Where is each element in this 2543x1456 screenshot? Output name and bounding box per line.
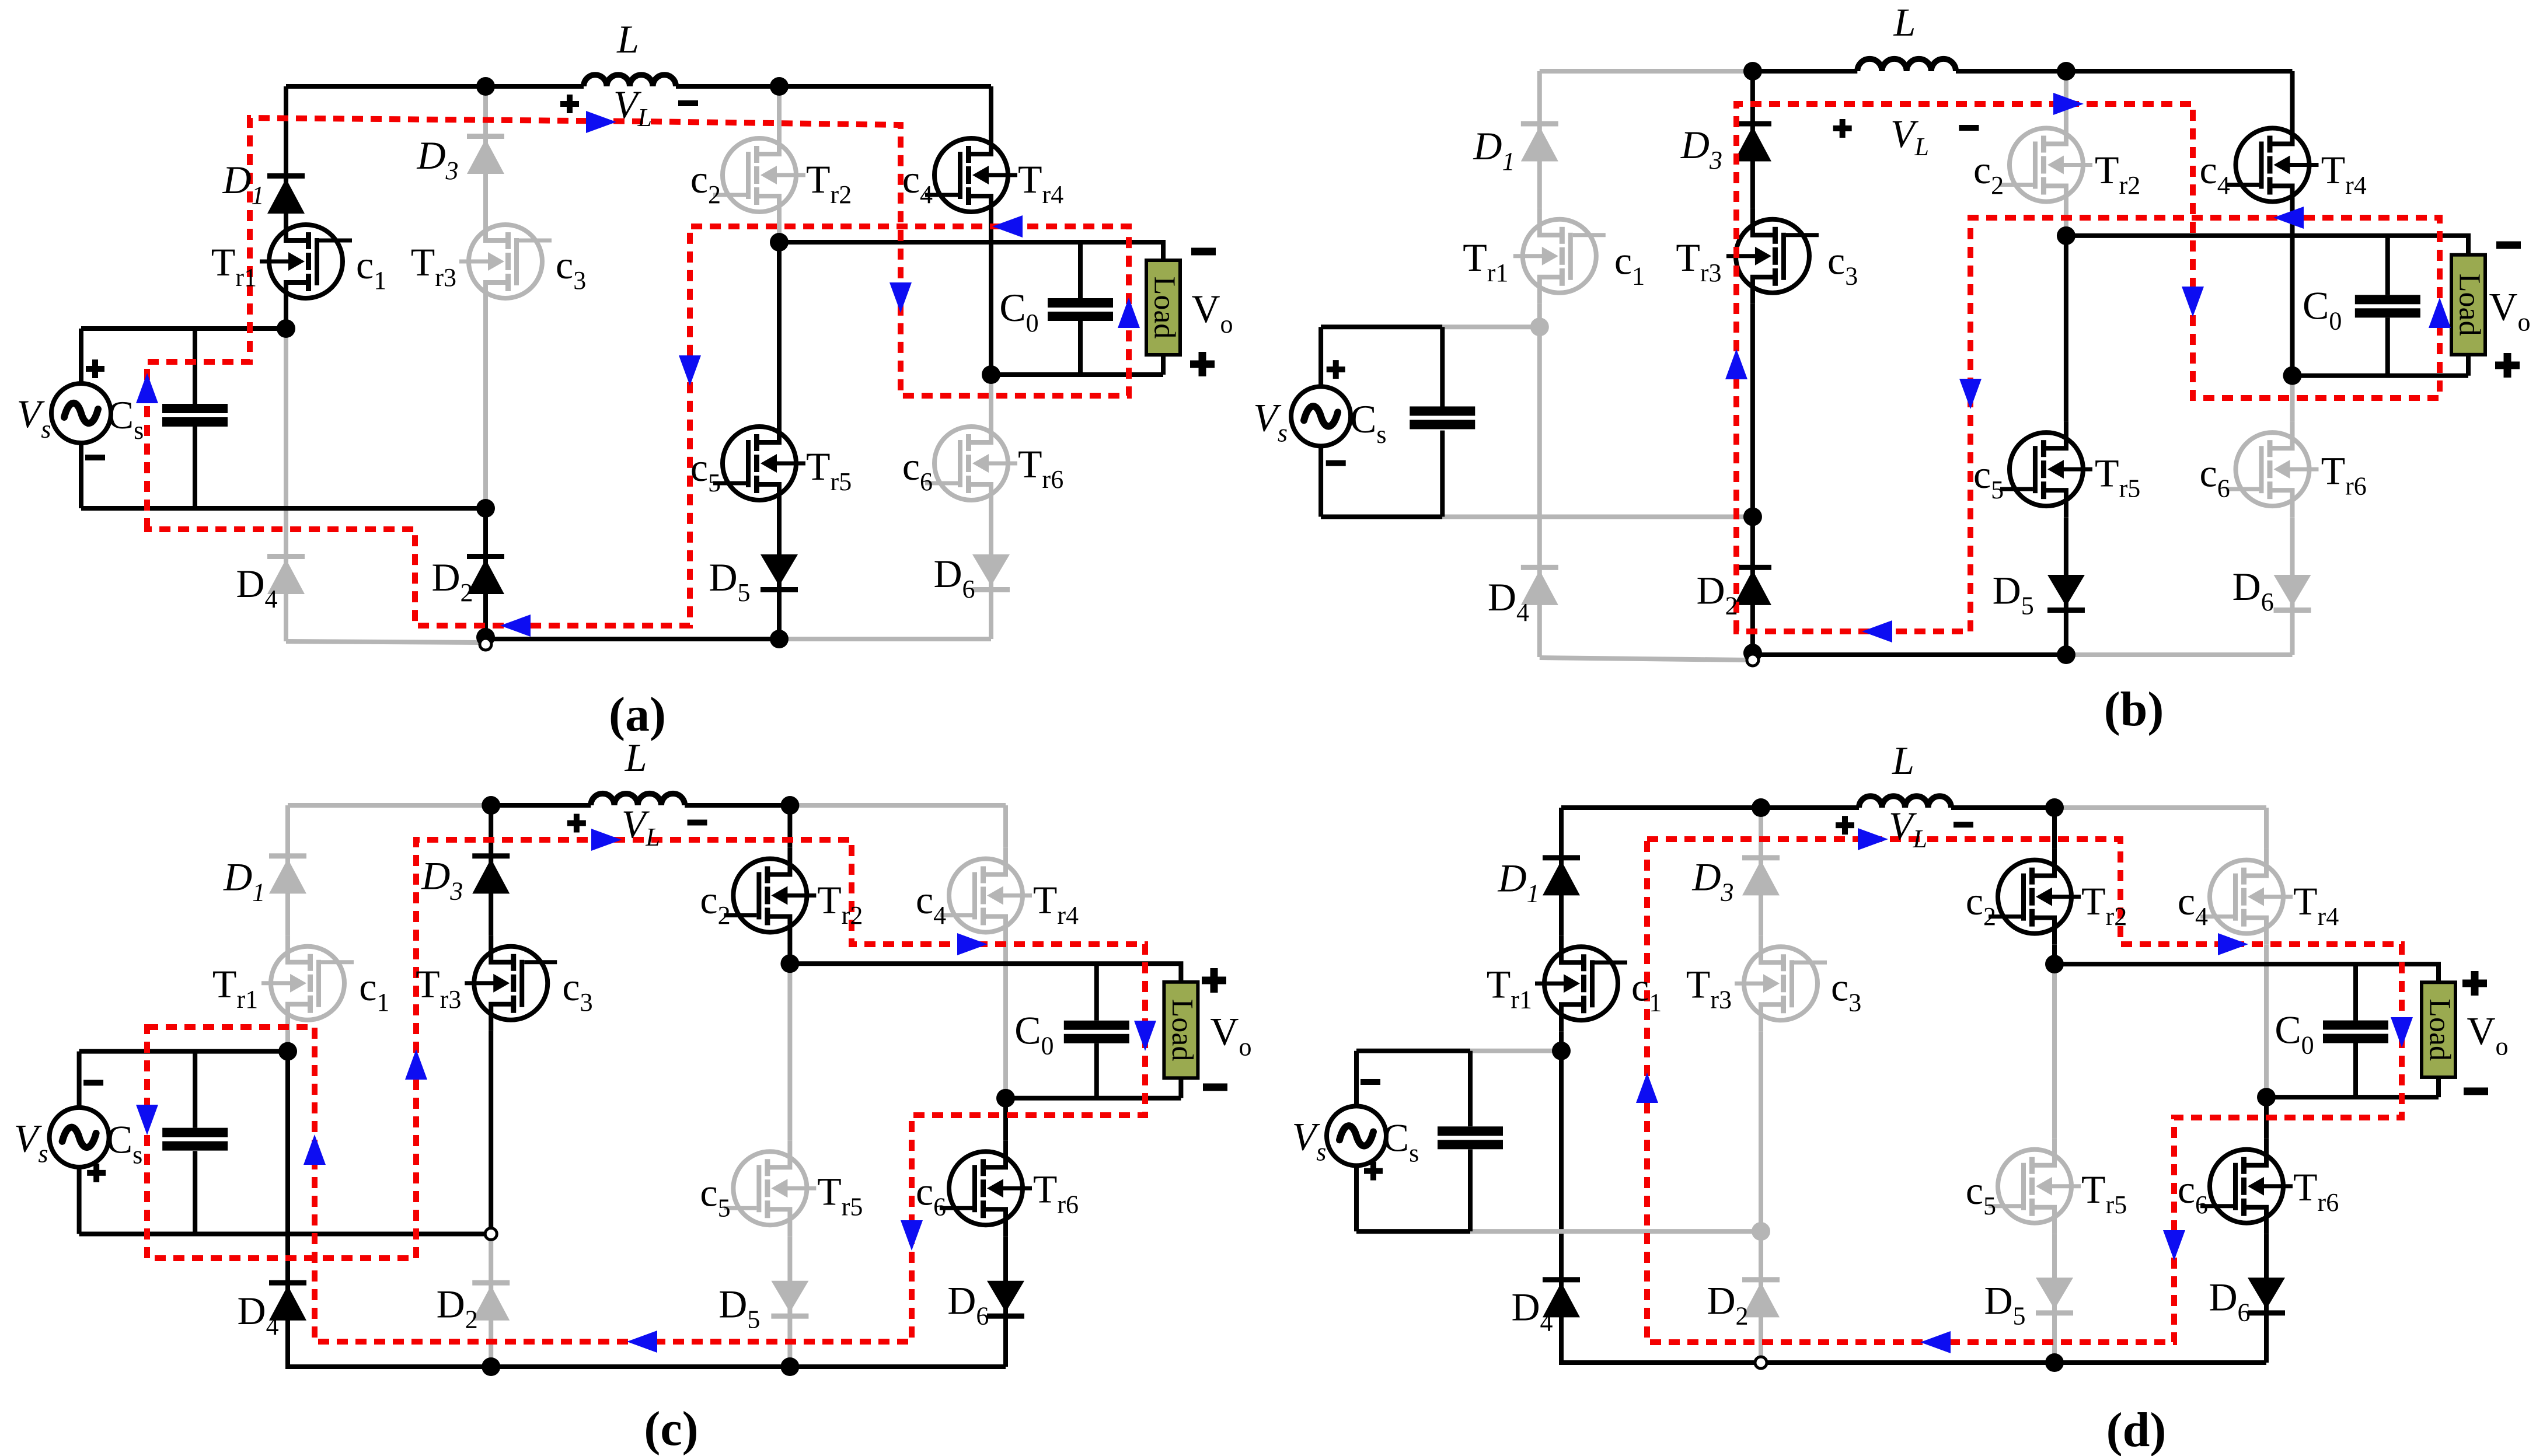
wire Cs top stub: [193, 1052, 197, 1128]
AC source Vs (d): [1327, 1106, 1386, 1165]
polarity mark Vo+ (a) (+): [1190, 352, 1215, 376]
wire Cs top stub: [193, 329, 197, 404]
label Tr1 (b): [1463, 235, 1508, 287]
transistor Tr2 (c) (MOSFET): [724, 847, 816, 943]
diode D4 (d): [1543, 1277, 1580, 1317]
wire leg3 output rail to Tr5: [787, 963, 792, 1140]
current direction arrow d1: [1636, 1073, 1658, 1103]
wire Vs top rail: [1356, 1049, 1470, 1053]
diode D1 (b): [1521, 121, 1558, 162]
wire C0 bottom stub: [2385, 317, 2390, 375]
polarity mark Vo- (c) (-): [1203, 1084, 1227, 1091]
wire load bottom stub: [1178, 1078, 1183, 1098]
wire leg4 Tr6 through D6 to bottom rail: [2290, 517, 2295, 655]
label Tr5 (a): [806, 444, 852, 496]
label Vo (c): [1210, 1009, 1251, 1061]
label D6 (c): [947, 1279, 989, 1331]
wire top rail gray (D1 to D3): [288, 803, 491, 808]
node junction top rail / D3 leg: [1752, 798, 1770, 817]
diode D2 (d): [1742, 1277, 1780, 1317]
node junction Vs- rail / D2 leg: [1743, 507, 1762, 526]
label Tr6 (a): [1018, 442, 1063, 494]
transistor Tr6 (b) (MOSFET): [2226, 421, 2318, 517]
node junction Tr1 source / Vs+ rail: [1530, 317, 1549, 336]
node junction Tr1 source / Vs+ rail: [277, 319, 295, 338]
wire C0 top stub: [1094, 963, 1099, 1021]
current direction arrow c2: [304, 1134, 326, 1165]
polarity mark Vs- (d) (-): [1361, 1079, 1380, 1085]
wire leg2 Vs-return node through D2 to bottom: [1759, 1231, 1763, 1363]
label c5 (c): [700, 1171, 730, 1223]
wire top rail gray (D1 to D3): [1540, 69, 1753, 74]
diode D6 (d): [2248, 1277, 2285, 1315]
node junction bottom rail / D5 leg: [780, 1357, 799, 1376]
current direction arrow b7: [1862, 620, 1892, 643]
polarity mark Vs+ (a) (+): [86, 359, 104, 378]
capacitor C0 (b): [2355, 295, 2420, 317]
wire Cs bottom stub: [1468, 1150, 1473, 1232]
wire leg1 mid node down through D4: [285, 1052, 290, 1369]
wire leg1 top (to D1/Tr1): [284, 86, 288, 214]
current direction arrow b3: [2182, 287, 2204, 317]
polarity mark Vs- (b) (-): [1326, 460, 1346, 466]
red dashed current path loop (b): [1736, 104, 2440, 631]
wire Vs left leg: [77, 1052, 82, 1108]
wire bottom-left gray return (D4 to D2): [286, 641, 480, 643]
label Vo (a): [1191, 287, 1233, 338]
current direction arrow a6: [679, 355, 701, 386]
transistor Tr3 (d) (MOSFET): [1735, 935, 1827, 1031]
capacitor Cs (d): [1438, 1126, 1503, 1149]
node junction top rail / D3 leg: [1743, 62, 1762, 81]
wire leg3 Tr5 through D5 to bottom rail: [2064, 517, 2068, 655]
wire top rail after L: [1951, 805, 2054, 810]
wire Cs bottom stub: [193, 1151, 197, 1234]
capacitor Cs (a): [162, 404, 228, 427]
label c3 (c): [562, 965, 592, 1017]
capacitor C0 (c): [1064, 1021, 1129, 1043]
wire Vs left leg: [1354, 1051, 1359, 1106]
wire load bottom stub: [2466, 355, 2471, 376]
load resistor Load (b): [2451, 255, 2486, 355]
wire Vs bottom rail: [1321, 515, 1442, 519]
wire output bottom rail: [991, 372, 1163, 377]
wire leg2 top (to D3/Tr3): [483, 86, 488, 214]
polarity mark Vo- (a) (-): [1191, 248, 1216, 256]
node junction bottom rail / D2 leg: [482, 1357, 500, 1376]
wire bottom rail D2-D5: [1753, 652, 2066, 657]
wire leg3 Tr5 through D5 to bottom rail: [787, 1236, 792, 1367]
node junction output top rail / Tr5 leg: [780, 954, 799, 973]
diode D1 (a): [267, 173, 305, 214]
label D6 (d): [2209, 1275, 2250, 1327]
transistor Tr1 (c) (MOSFET): [261, 935, 354, 1031]
node junction Tr1 source / Vs+ rail: [278, 1042, 297, 1061]
current direction arrow a3: [889, 282, 912, 313]
wire bottom rail: [1561, 1360, 2266, 1365]
capacitor Cs (c): [162, 1128, 228, 1151]
wire top rail D1-L: [1561, 805, 1859, 810]
svg-text:Load: Load: [1166, 999, 1199, 1062]
load resistor Load (a): [1146, 260, 1181, 355]
wire leg1 mid node down through D4: [1559, 1051, 1564, 1365]
wire leg3 output rail to Tr5: [2064, 236, 2068, 421]
wire Vs bottom rail: [79, 1232, 491, 1237]
wire Vs bottom rail: [1356, 1229, 1470, 1234]
label figure tag (a): [609, 687, 666, 742]
svg-text:L: L: [1892, 738, 1914, 783]
diode D3 (b): [1734, 121, 1771, 162]
label Vo (b): [2489, 285, 2530, 337]
node junction bottom rail / D5 leg: [2057, 645, 2075, 664]
transistor Tr5 (a) (MOSFET): [713, 415, 805, 511]
label C0 (c): [1014, 1008, 1054, 1060]
transistor Tr6 (c) (MOSFET): [940, 1140, 1032, 1236]
transistor Tr2 (d) (MOSFET): [1989, 849, 2081, 945]
wire bottom rail D2-D5: [486, 637, 779, 641]
label D4 (c): [238, 1289, 279, 1340]
polarity mark VL+ (c) (+): [567, 814, 586, 833]
label D1 (b): [1473, 124, 1515, 176]
polarity mark Vo+ (b) (+): [2495, 353, 2520, 378]
wire Vs left leg lower: [79, 443, 83, 508]
transistor Tr4 (a) (MOSFET): [925, 127, 1017, 223]
transistor Tr6 (a) (MOSFET): [925, 415, 1017, 511]
wire C0 bottom stub: [1094, 1043, 1099, 1098]
label Vs (a): [17, 392, 51, 444]
label VL (b): [1890, 111, 1929, 161]
label Cs (c): [106, 1117, 142, 1169]
label D3 (c): [421, 853, 463, 905]
transistor Tr1 (b) (MOSFET): [1513, 208, 1606, 304]
label Tr4 (d): [2293, 879, 2339, 931]
wire bottom rail gray D5-D6: [779, 637, 991, 641]
wire C0 bottom stub: [1078, 321, 1083, 375]
label D5 (c): [718, 1282, 760, 1334]
AC source Vs (a): [51, 383, 111, 443]
label C0 (d): [2275, 1008, 2314, 1060]
wire Vs bottom rail gray part: [1442, 515, 1753, 519]
label Vs (b): [1253, 396, 1288, 448]
inductor L (c): [591, 794, 685, 805]
diode D6 (c): [987, 1281, 1024, 1319]
wire leg4 output bottom rail to Tr6: [2264, 1097, 2269, 1139]
transistor Tr4 (b) (MOSFET): [2226, 117, 2318, 213]
polarity mark VL+ (b) (+): [1833, 119, 1852, 138]
label VL (a): [613, 82, 652, 132]
wire leg3 Tr2 to output rail: [2052, 945, 2057, 964]
wire leg2 Vs-return node through D2 to bottom: [483, 508, 488, 639]
wire output bottom rail: [2293, 373, 2469, 378]
current direction arrow b2: [2053, 93, 2084, 115]
wire load bottom stub: [1161, 355, 1166, 375]
capacitor C0 (d): [2323, 1021, 2388, 1043]
label Tr1 (d): [1487, 962, 1532, 1014]
diode D3 (a): [467, 134, 504, 174]
wire leg1 top (to D1/Tr1): [1537, 71, 1542, 208]
node terminal at D2 bottom (open terminal): [480, 638, 491, 650]
label c3 (b): [1827, 238, 1858, 290]
wire Vs bottom rail: [81, 506, 486, 511]
transistor Tr6 (d) (MOSFET): [2200, 1139, 2293, 1234]
node junction top rail / Tr2 leg: [780, 796, 799, 815]
wire Vs top rail: [81, 326, 286, 331]
wire leg1 mid node down through D4: [284, 329, 288, 641]
wire Vs top rail: [79, 1049, 288, 1054]
transistor Tr5 (d) (MOSFET): [1989, 1139, 2081, 1234]
current direction arrow a1: [136, 373, 158, 403]
wire Cs top stub: [1440, 327, 1445, 406]
current direction arrow c7: [901, 1220, 923, 1251]
wire C0 top stub: [2385, 236, 2390, 295]
label C0 (b): [2303, 284, 2342, 336]
label c4 (d): [2178, 879, 2208, 931]
label c5 (d): [1966, 1168, 1996, 1220]
wire Cs bottom stub: [1440, 431, 1445, 517]
wire bottom-left gray return (D4 to D2): [1540, 658, 1747, 660]
label Tr5 (b): [2095, 451, 2140, 503]
label c1 (c): [359, 965, 389, 1017]
diode D6 (b): [2273, 575, 2311, 613]
label Tr5 (c): [817, 1169, 863, 1221]
polarity mark Vs+ (c) (+): [87, 1164, 106, 1182]
diode D3 (d): [1742, 855, 1780, 895]
diode D2 (c): [472, 1280, 510, 1321]
polarity mark VL- (d) (-): [1954, 822, 1973, 827]
svg-text:(b): (b): [2104, 682, 2164, 736]
label L (d): [1892, 738, 1914, 783]
wire top rail gray (Tr2 to Tr4): [790, 803, 1006, 808]
wire leg3 output rail to Tr5: [777, 242, 782, 415]
label Tr3 (a): [411, 240, 456, 292]
wire leg4 output bottom rail to Tr6: [1003, 1098, 1008, 1140]
inductor L (b): [1857, 59, 1956, 71]
wire Vs left leg lower: [1318, 446, 1323, 516]
diode D5 (d): [2036, 1277, 2073, 1315]
label D1 (c): [223, 854, 265, 906]
wire leg4 Tr4 to output bottom rail: [2290, 213, 2295, 376]
current direction arrow c6: [1134, 1021, 1156, 1051]
wire Vs left leg: [79, 329, 83, 383]
wire leg4 output bottom rail to Tr6: [989, 375, 993, 415]
label c3 (a): [556, 243, 586, 295]
diode D4 (a): [267, 554, 305, 594]
current direction arrow a4: [1118, 298, 1140, 328]
label L (c): [625, 735, 647, 780]
current direction arrow a5: [992, 215, 1023, 238]
node junction top rail / D3 leg: [482, 796, 500, 815]
wire leg2 top (to D3/Tr3): [1750, 71, 1755, 208]
current direction arrow b5: [2273, 207, 2304, 229]
node junction bottom rail / D5 leg: [770, 630, 789, 648]
wire leg2 Tr3 down to Vs-return node: [1759, 1031, 1763, 1231]
svg-text:(a): (a): [609, 687, 666, 742]
label Cs (a): [107, 393, 144, 445]
label c1 (b): [1614, 238, 1645, 290]
label D2 (c): [437, 1282, 478, 1334]
diode D6 (a): [972, 554, 1010, 592]
label D3 (a): [416, 133, 458, 185]
wire output bottom rail: [1006, 1096, 1181, 1101]
wire leg3 Tr2 to output rail: [2064, 213, 2068, 236]
inductor L (d): [1859, 796, 1951, 808]
label figure tag (b): [2104, 682, 2164, 736]
label c6 (d): [2178, 1167, 2208, 1219]
current direction arrow d4: [2391, 1017, 2413, 1048]
wire leg3 top rail to Tr2: [787, 805, 792, 847]
wire leg4 Tr6 through D6 to bottom rail: [2264, 1234, 2269, 1363]
node junction output bottom rail / Tr6 leg: [2257, 1088, 2276, 1106]
wire Vs bottom rail gray part: [1470, 1229, 1761, 1234]
polarity mark Vo+ (d) (+): [2462, 971, 2487, 996]
wire Vs top rail gray part: [1442, 324, 1540, 329]
wire leg4 Tr6 through D6 to bottom rail: [1003, 1236, 1008, 1367]
wire leg4 Tr4 to output bottom rail: [989, 223, 993, 375]
wire leg1 Tr1 to mid node: [284, 309, 288, 329]
wire leg4 Tr4 to output bottom rail: [2264, 945, 2269, 1097]
diode D1 (d): [1543, 855, 1580, 895]
transistor Tr3 (a) (MOSFET): [459, 214, 552, 309]
wire top rail after L: [676, 84, 991, 89]
wire leg3 top rail to Tr2: [2064, 71, 2068, 117]
polarity mark VL+ (d) (+): [1836, 816, 1854, 835]
label D3 (b): [1680, 123, 1722, 174]
wire leg1 top (to D1/Tr1): [1559, 808, 1564, 935]
label D1 (d): [1497, 856, 1539, 908]
current direction arrow c8: [627, 1331, 657, 1353]
capacitor Cs (b): [1410, 406, 1475, 429]
label c4 (c): [916, 878, 946, 930]
current direction arrow a2: [586, 111, 616, 133]
wire leg1 mid node down through D4: [1537, 327, 1542, 657]
wire leg2 Vs-return node through D2 to bottom: [1750, 517, 1755, 655]
polarity mark Vo- (b) (-): [2496, 242, 2521, 249]
node junction output top rail / Tr5 leg: [770, 233, 789, 252]
wire leg2 top (to D3/Tr3): [1759, 808, 1763, 935]
node junction D2 bottom / bottom rail: [476, 628, 495, 647]
label D6 (b): [2232, 564, 2274, 616]
label D2 (d): [1707, 1279, 1748, 1331]
svg-text:Load: Load: [2453, 274, 2486, 336]
node junction top rail / Tr2 leg: [2045, 798, 2064, 817]
label Tr3 (b): [1676, 235, 1721, 287]
wire output bottom rail: [2266, 1095, 2439, 1099]
label figure tag (c): [644, 1402, 698, 1456]
label c1 (d): [1631, 965, 1662, 1017]
label Tr4 (c): [1033, 878, 1079, 930]
label Tr3 (c): [416, 962, 461, 1014]
wire leg1 Tr1 to mid node: [285, 1031, 290, 1052]
polarity mark VL- (c) (-): [688, 820, 707, 826]
label c6 (c): [916, 1169, 946, 1221]
label Tr4 (a): [1018, 157, 1063, 209]
polarity mark VL- (a) (-): [678, 100, 698, 106]
current direction arrow d2: [1858, 828, 1888, 850]
label Tr2 (a): [806, 157, 852, 209]
node junction top rail / Tr2 leg: [770, 77, 789, 96]
transistor Tr1 (d) (MOSFET): [1535, 935, 1627, 1031]
wire Cs top stub: [1468, 1051, 1473, 1127]
transistor Tr1 (a) (MOSFET): [260, 214, 352, 309]
label Cs (b): [1350, 397, 1386, 449]
label c6 (b): [2200, 451, 2230, 503]
wire leg3 Tr2 to output rail: [777, 223, 782, 242]
wire output top rail: [2066, 236, 2468, 255]
transistor Tr5 (c) (MOSFET): [724, 1140, 816, 1236]
node junction bottom rail / D5 leg: [2045, 1353, 2064, 1372]
node junction top rail / D3 leg: [476, 77, 495, 96]
label c6 (a): [902, 444, 933, 496]
node junction D2 bottom / bottom rail: [1743, 644, 1762, 662]
wire leg2 top (to D3/Tr3): [489, 805, 493, 935]
label Tr4 (b): [2321, 148, 2367, 200]
wire C0 top stub: [1078, 242, 1083, 298]
label c5 (a): [690, 445, 721, 497]
label Tr6 (c): [1033, 1167, 1079, 1219]
wire load bottom stub: [2436, 1077, 2441, 1097]
label L (a): [616, 17, 639, 61]
label Tr2 (d): [2081, 879, 2127, 931]
current direction arrow c5: [957, 933, 988, 955]
node junction Vs- rail / D2 leg: [476, 499, 495, 518]
diode D4 (b): [1521, 565, 1558, 605]
diode D5 (b): [2047, 575, 2085, 613]
wire leg1 Tr1 to mid node: [1537, 304, 1542, 327]
polarity mark VL- (b) (-): [1959, 125, 1979, 131]
diode D5 (c): [771, 1281, 808, 1319]
label Vo (d): [2467, 1009, 2508, 1061]
wire C0 top stub: [2353, 964, 2358, 1020]
wire bottom rail gray D5-D6: [2066, 652, 2293, 657]
node junction output bottom rail / Tr6 leg: [982, 365, 1000, 384]
wire leg3 top rail to Tr2: [777, 86, 782, 127]
label Cs (d): [1383, 1115, 1419, 1167]
label VL (c): [622, 802, 660, 851]
node junction output bottom rail / Tr6 leg: [996, 1089, 1015, 1108]
svg-text:(d): (d): [2106, 1403, 2167, 1456]
label D4 (a): [236, 561, 277, 613]
label Tr3 (d): [1686, 962, 1732, 1014]
label D3 (d): [1691, 855, 1733, 907]
wire leg1 top (to D1/Tr1): [285, 805, 290, 935]
node junction output top rail / Tr5 leg: [2057, 226, 2075, 245]
svg-text:L: L: [616, 17, 639, 61]
label Tr1 (a): [211, 240, 257, 292]
wire Cs bottom stub: [193, 427, 197, 508]
wire top rail after L: [685, 803, 790, 808]
node terminal at D2 bottom (open terminal): [1747, 654, 1759, 666]
diode D5 (a): [761, 554, 798, 592]
label c2 (a): [690, 157, 721, 209]
svg-text:Load: Load: [1148, 277, 1181, 339]
wire top rail after L: [1956, 69, 2293, 74]
label Tr2 (b): [2095, 148, 2140, 200]
wire leg4 Tr4 to output bottom rail: [1003, 943, 1008, 1098]
node terminal Vs- rail end (open terminal): [485, 1228, 497, 1239]
wire leg2 Tr3 down to Vs-return node: [489, 1031, 493, 1234]
node junction Vs- rail / D2 leg (gray): [1752, 1222, 1770, 1241]
wire bottom rail: [288, 1364, 1006, 1369]
polarity mark Vo+ (c) (+): [1202, 968, 1226, 993]
label figure tag (d): [2106, 1403, 2167, 1456]
node junction output top rail / Tr5 leg: [2045, 955, 2064, 973]
wire Vs left leg lower: [77, 1167, 82, 1234]
current direction arrow b1: [1725, 349, 1747, 379]
diode D3 (c): [472, 853, 510, 893]
wire leg4 output bottom rail to Tr6: [2290, 376, 2295, 422]
label c2 (c): [700, 878, 730, 930]
transistor Tr2 (b) (MOSFET): [2000, 117, 2092, 213]
